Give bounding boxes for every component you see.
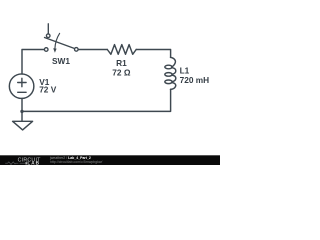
wire <box>22 89 171 111</box>
ground <box>13 121 33 130</box>
CircuitLab logo <box>5 157 41 165</box>
switch SW1 actuation arrow <box>55 33 60 48</box>
switch SW1 pole terminal <box>44 48 48 52</box>
wire <box>136 50 170 58</box>
resistor R1 <box>107 45 136 55</box>
wire <box>47 24 49 34</box>
wire <box>79 49 108 51</box>
switch SW1 common terminal <box>75 48 79 52</box>
svg-text:SW1: SW1 <box>52 56 70 66</box>
switch SW1 <box>44 24 78 53</box>
inductor L1 <box>165 57 176 89</box>
voltage source V1 <box>9 74 33 99</box>
wire <box>22 50 44 75</box>
switch SW1 throw terminal <box>46 34 50 38</box>
wire <box>21 98 23 121</box>
svg-text:72 V: 72 V <box>39 84 57 94</box>
svg-text:LAB: LAB <box>27 161 40 166</box>
switch SW1 blade <box>45 38 75 49</box>
svg-text:http://circuitlab.com/c/5mwpbg: http://circuitlab.com/c/5mwpbgkw/ <box>50 160 102 164</box>
svg-text:720 mH: 720 mH <box>180 75 210 85</box>
svg-text:L1: L1 <box>180 65 190 75</box>
svg-text:72 Ω: 72 Ω <box>112 67 131 77</box>
watermark bar <box>0 155 220 165</box>
node junction <box>20 110 23 113</box>
